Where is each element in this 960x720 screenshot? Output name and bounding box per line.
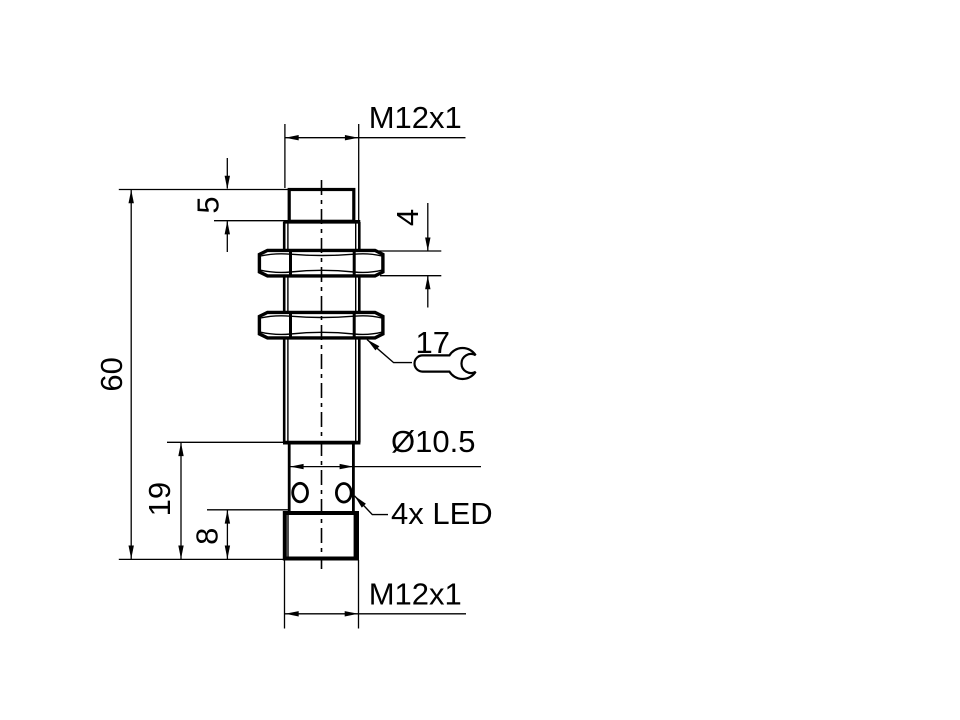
sensor cap (top plain section) <box>289 190 354 222</box>
dim 5 upper arrow stem <box>226 158 228 189</box>
LED leader arrowhead <box>355 496 366 508</box>
left shared bottom extension line <box>119 558 285 560</box>
arrow down (19) <box>178 546 183 560</box>
LED window left <box>293 483 308 502</box>
arrow left (top dim) <box>285 135 299 140</box>
LED window right <box>336 484 351 503</box>
arrow down (4) <box>425 238 430 252</box>
dim 8 vertical line <box>226 510 228 560</box>
arrow up (4) <box>425 276 430 290</box>
svg-text:5: 5 <box>190 196 225 213</box>
left shared top extension line <box>119 189 289 191</box>
wrench leader arrowhead <box>367 340 379 351</box>
hex nut 2 (lower lock nut) <box>259 312 383 338</box>
arrow left (Ø10.5) <box>290 464 304 469</box>
dim 19 extension line <box>167 441 284 443</box>
svg-text:60: 60 <box>94 357 129 391</box>
dim 19 vertical line <box>180 442 182 559</box>
base section (8mm bottom body) <box>285 513 357 559</box>
centerline (vertical dash-dot axis) <box>321 180 323 569</box>
arrow right (top dim) <box>345 135 359 140</box>
wrench icon (open-end spanner) <box>414 348 475 379</box>
dim 4 extension lines (right of nut 1) <box>379 251 441 276</box>
svg-text:4: 4 <box>390 209 425 226</box>
svg-text:8: 8 <box>190 528 225 545</box>
svg-text:4x LED: 4x LED <box>391 496 493 531</box>
svg-text:19: 19 <box>142 482 177 516</box>
dim 5 lower arrow stem <box>226 221 228 252</box>
dim 8 extension line <box>207 509 288 511</box>
arrow up (19) <box>178 443 183 457</box>
arrow right (bottom dim) <box>345 611 359 616</box>
svg-text:Ø10.5: Ø10.5 <box>391 424 475 459</box>
arrow left (bottom dim) <box>285 611 299 616</box>
arrow down (8) <box>225 546 230 560</box>
base inner wall lines <box>288 515 354 557</box>
wrench leader line <box>367 340 412 363</box>
thread outer lines (M12 crest) <box>284 222 359 443</box>
arrow up (8) <box>225 510 230 523</box>
arrow right (Ø10.5) <box>340 464 354 469</box>
arrow down (60) <box>129 546 134 560</box>
top dimension line M12x1 <box>285 137 466 139</box>
dim 5 lower extension line <box>214 220 290 222</box>
dim 4 lower arrow stem <box>427 276 429 308</box>
svg-text:M12x1: M12x1 <box>369 577 462 612</box>
bottom dimension line M12x1 <box>285 613 466 615</box>
barrel (Ø10.5 smooth section) <box>289 443 353 512</box>
dim 4 upper arrow stem <box>427 203 429 251</box>
arrow up onto lower line (5) <box>225 221 230 235</box>
thread bottom shoulder line <box>283 441 360 445</box>
bottom dimension extension lines <box>285 560 359 629</box>
dim line Ø10.5 <box>290 466 481 468</box>
arrow down onto top line (5) <box>225 176 230 190</box>
dim 60 vertical line <box>130 190 132 560</box>
top dimension extension lines <box>285 124 359 221</box>
svg-text:M12x1: M12x1 <box>369 100 462 135</box>
cap bottom shoulder line <box>283 220 360 224</box>
arrow up (60) <box>129 190 134 204</box>
hex nut 1 (upper, 4mm thick) <box>259 250 383 276</box>
thread root lines (thin) <box>288 222 356 443</box>
LED leader line <box>355 496 389 515</box>
